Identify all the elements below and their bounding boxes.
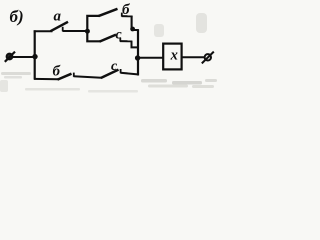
svg-text:x: x: [170, 47, 178, 63]
wire node D to relay box: [138, 57, 165, 59]
contact c blade: [100, 35, 117, 42]
node B junction dot: [85, 29, 90, 34]
wire bottom branch left: [34, 78, 59, 80]
svg-text:б: б: [53, 64, 61, 80]
wire contact c fixed side: [120, 40, 132, 42]
contact b fixed tick: [73, 73, 75, 77]
contact c2 blade: [101, 70, 119, 78]
svg-text:б): б): [10, 7, 24, 26]
wire stub node C to right bus: [132, 29, 139, 31]
node D junction dot: [135, 55, 140, 60]
wire contact б fixed side: [122, 15, 133, 17]
svg-text:c: c: [111, 59, 118, 74]
wire right vertical bus: [137, 30, 139, 76]
node A junction dot: [32, 54, 37, 59]
wire top branch left: [34, 30, 53, 32]
input terminal: [5, 52, 15, 62]
wire contact a fixed side to node B: [63, 30, 89, 32]
contact b blade: [58, 74, 72, 80]
wire relay box to output terminal: [182, 56, 205, 58]
wire contact b fixed side: [74, 76, 102, 78]
scan noise smudges: [0, 13, 217, 93]
wire c branch jog to right bus: [132, 41, 139, 48]
contact a blade: [51, 22, 69, 31]
relay coil box X: [163, 44, 181, 70]
wire б branch right vertical: [131, 16, 133, 29]
contact б blade: [99, 9, 118, 16]
contact c fixed tick: [119, 38, 121, 42]
wire contact c2 fixed side to bus: [120, 73, 139, 75]
wire input terminal to node A: [12, 56, 35, 58]
contact б fixed tick: [121, 13, 123, 17]
contact c2 fixed tick: [120, 69, 122, 73]
svg-text:a: a: [54, 9, 62, 25]
output terminal: [202, 52, 214, 64]
contact a fixed tick: [62, 27, 64, 32]
wire parallel group left side: [87, 16, 100, 41]
node C junction dot: [130, 27, 135, 32]
wire left vertical bus: [34, 30, 36, 79]
